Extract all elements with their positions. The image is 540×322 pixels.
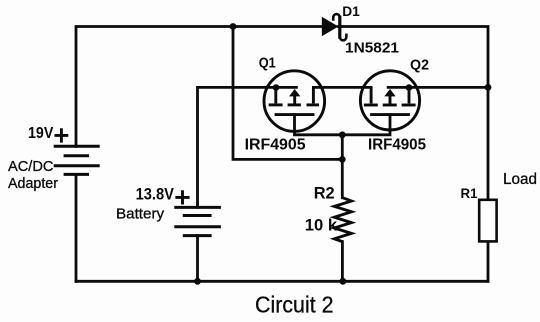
plus sign battery <box>175 190 189 204</box>
wire top-right and right rail <box>338 27 488 200</box>
svg-text:Battery: Battery <box>116 205 165 222</box>
battery 13.8V symbol <box>174 207 221 235</box>
plus sign adapter <box>55 128 69 142</box>
svg-text:13.8V: 13.8V <box>136 185 174 203</box>
resistor R1 box <box>479 200 496 242</box>
diode D1 <box>322 14 347 40</box>
resistor R2 zigzag <box>334 198 351 242</box>
node R2 top junction <box>339 156 346 163</box>
node load rail junction <box>485 84 492 91</box>
wire gate bus <box>295 115 391 198</box>
svg-text:Load: Load <box>503 171 537 188</box>
svg-text:IRF4905: IRF4905 <box>368 137 426 154</box>
svg-text:AC/DC: AC/DC <box>8 159 53 175</box>
node top rail junction <box>230 23 237 30</box>
svg-text:R2: R2 <box>314 183 335 202</box>
svg-text:Adapter: Adapter <box>8 176 58 192</box>
svg-text:IRF4905: IRF4905 <box>245 137 306 154</box>
svg-text:Q1: Q1 <box>259 56 276 72</box>
node R2 bottom junction <box>340 278 347 285</box>
svg-text:19V: 19V <box>28 125 54 142</box>
wire Q1 drain to Q2 drain <box>313 86 371 89</box>
svg-text:Circuit 2: Circuit 2 <box>255 292 334 318</box>
AC/DC adapter battery symbol <box>54 146 100 174</box>
transistor Q1 IRF4905 <box>264 71 325 132</box>
node gate bus junction <box>339 131 346 138</box>
wire bottom rail <box>76 280 488 283</box>
node battery negative junction <box>194 278 201 285</box>
wire Q2 source to right rail <box>388 86 488 89</box>
wire left rail below adapter <box>75 174 78 281</box>
transistor Q2 IRF4905 <box>360 71 419 130</box>
wire battery negative to bottom rail <box>196 236 199 282</box>
svg-text:1N5821: 1N5821 <box>345 39 400 56</box>
svg-text:10 k: 10 k <box>305 215 338 234</box>
wire top-left rail <box>76 27 322 147</box>
node Q2 source dot <box>406 84 413 91</box>
wire top junction to gate bus column <box>233 27 342 160</box>
wire battery positive to Q1 source <box>198 87 297 207</box>
wire R2 bottom to rail <box>341 242 344 282</box>
node junction dots <box>194 23 491 285</box>
node Q1 source dot <box>273 84 280 91</box>
svg-text:R1: R1 <box>461 185 478 201</box>
svg-text:D1: D1 <box>342 3 360 19</box>
svg-text:Q2: Q2 <box>410 58 429 74</box>
wire right rail below R1 <box>487 241 490 281</box>
